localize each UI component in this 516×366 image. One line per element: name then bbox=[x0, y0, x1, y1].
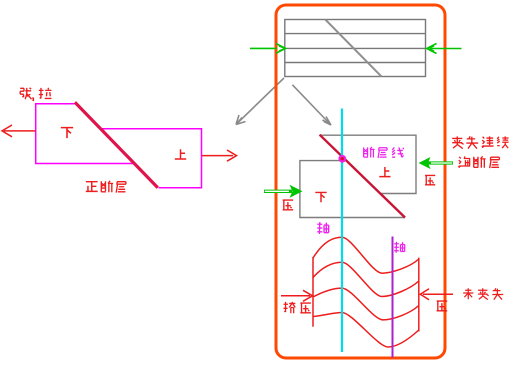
arrow left (extension) red bbox=[2, 125, 36, 137]
fault plane diagonal (normal fault) crimson bbox=[75, 102, 158, 187]
fold left edge red bbox=[312, 257, 314, 327]
green arrow middle-left compression bbox=[264, 185, 303, 198]
red arrow fold-left compression bbox=[281, 290, 313, 301]
text 轴 axis label 1 bbox=[317, 222, 328, 234]
text 压 fold-right bbox=[437, 301, 448, 311]
fold wave 2 bbox=[313, 262, 419, 296]
text 上 left bbox=[175, 149, 186, 159]
red arrow fold-right compression bbox=[420, 289, 453, 300]
text 未丧失 not lost bbox=[463, 288, 503, 299]
strata layer lines bbox=[285, 34, 426, 63]
text 上 middle bbox=[379, 167, 390, 177]
green arrow top-right into strata bbox=[427, 44, 462, 54]
gray arrow to left diagram bbox=[236, 78, 284, 125]
fold right edge red bbox=[418, 258, 420, 332]
label 张,拉 tension text bbox=[20, 88, 51, 101]
text 压 middle-right bbox=[425, 175, 435, 184]
fold wave 1 bbox=[313, 237, 419, 273]
arrow right (extension) red bbox=[202, 150, 237, 161]
left block 下 (footwall) magenta outline bbox=[36, 104, 133, 164]
right block 上 (hanging wall) magenta outline bbox=[100, 129, 201, 188]
fold wave 3 bbox=[313, 288, 419, 320]
middle upper block 上 gray outline bbox=[320, 135, 416, 193]
gray arrow to middle diagram bbox=[292, 85, 331, 125]
text 挤压 squeeze bbox=[284, 302, 311, 313]
strata box gray bbox=[285, 20, 426, 77]
text 逆断层 reverse fault bbox=[458, 156, 499, 168]
text 断层线 fault line label magenta bbox=[364, 147, 404, 158]
text 压 middle-left bbox=[283, 200, 294, 210]
text 下 left bbox=[61, 128, 73, 139]
text 轴 axis label 2 bbox=[394, 242, 405, 253]
magenta node dot bbox=[338, 155, 346, 163]
text 下 middle bbox=[315, 192, 326, 202]
text 正断层 normal fault label bbox=[86, 181, 126, 193]
cyan hinge line vertical bbox=[341, 109, 343, 353]
green arrow top-left into strata bbox=[250, 44, 286, 54]
purple axis vertical line bbox=[392, 237, 394, 358]
middle lower block 下 gray outline bbox=[300, 161, 405, 218]
middle fault diagonal crimson bbox=[320, 135, 405, 218]
strata fault diagonal gray bbox=[325, 20, 381, 77]
text 丧失连续 lose continuity bbox=[452, 136, 508, 148]
fold wave 4 bbox=[313, 313, 419, 348]
orange rounded frame bbox=[276, 5, 445, 358]
green arrow middle-right compression bbox=[419, 157, 454, 169]
